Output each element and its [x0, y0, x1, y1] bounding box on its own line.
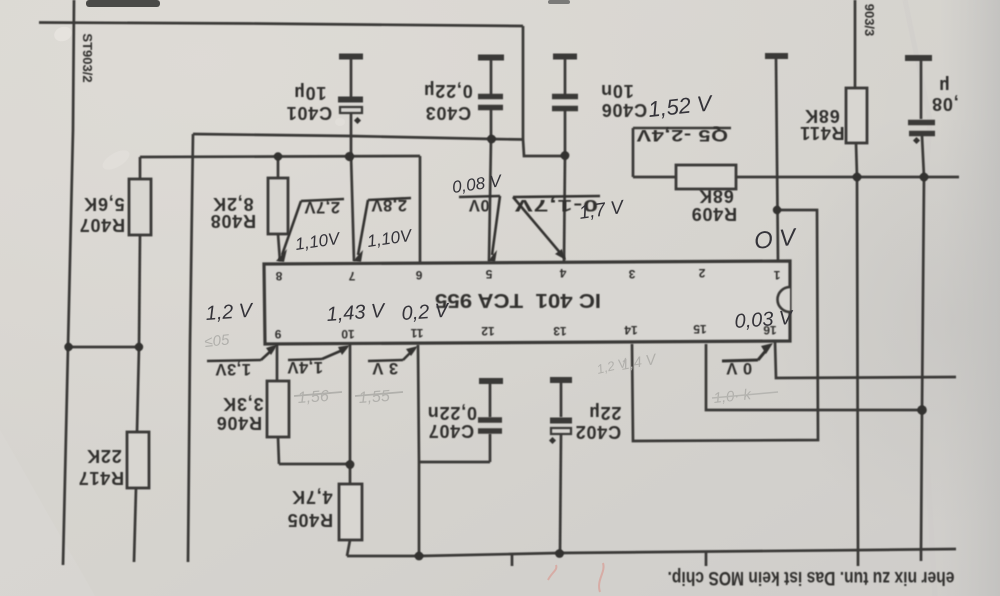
svg-text:8: 8 — [275, 269, 282, 283]
node dot rail3 R411 — [853, 173, 862, 182]
flag pin4 overline — [513, 196, 600, 197]
resistor R407 — [129, 179, 151, 235]
flag pin8 overline — [301, 199, 344, 201]
svg-text:12: 12 — [481, 324, 495, 338]
wire node C401 to pin 7 — [351, 155, 354, 261]
svg-text:1,55: 1,55 — [358, 388, 390, 407]
node dot pin15 wire — [917, 405, 927, 415]
wire R408 bottom to pin 8 — [278, 234, 280, 261]
svg-text:1,56: 1,56 — [297, 388, 329, 407]
flag pin5 arrowhead — [488, 250, 497, 262]
svg-text:‚08: ‚08 — [931, 94, 958, 114]
svg-text:3: 3 — [628, 267, 635, 281]
wire rail2 — [140, 156, 420, 157]
svg-text:5,6K: 5,6K — [83, 194, 124, 214]
svg-text:10µ: 10µ — [294, 83, 327, 103]
svg-text:C402: C402 — [575, 422, 621, 442]
ground bar above right cap — [905, 55, 932, 61]
resistor R405 — [339, 484, 362, 540]
wire stub below bottom rail a — [511, 555, 514, 566]
svg-text:C401: C401 — [286, 103, 332, 123]
svg-text:22K: 22K — [86, 446, 121, 466]
svg-text:0V: 0V — [468, 196, 489, 214]
flag pin8 arrowhead — [276, 249, 287, 262]
node dot R408-rail2 — [274, 152, 282, 160]
wire R406 bottom to H2 — [278, 437, 279, 464]
capacitor C407 — [489, 434, 492, 462]
svg-text:10: 10 — [341, 327, 355, 341]
crease bottom-left — [0, 430, 95, 596]
node dot bottom rail C407 line — [415, 552, 424, 561]
paper tear spot near top-left — [52, 24, 74, 43]
svg-text:≤05: ≤05 — [204, 331, 231, 351]
svg-text:Q5 -2,4V: Q5 -2,4V — [636, 126, 728, 144]
svg-text:0,22n: 0,22n — [427, 403, 477, 423]
ground terminal above pin1 line — [765, 53, 788, 59]
svg-text:IC 401 TCA 955: IC 401 TCA 955 — [435, 289, 601, 311]
wire pin 16 down and right — [775, 341, 956, 378]
flag pin7 arrowhead — [353, 250, 363, 262]
flag pin10 leader — [322, 349, 345, 359]
wire C402 to bottom rail — [560, 434, 561, 553]
crease right — [905, 0, 935, 596]
svg-text:R408: R408 — [210, 211, 256, 231]
wire top rail — [39, 23, 523, 27]
capacitor C401 (electrolytic) — [350, 59, 353, 97]
svg-text:6: 6 — [415, 268, 422, 282]
svg-text:4,7K: 4,7K — [291, 487, 332, 507]
ground bar above C401 — [339, 54, 363, 60]
dark smudge top edge — [86, 0, 160, 7]
resistor R408 — [268, 178, 288, 234]
node dot R405 top — [346, 460, 355, 469]
svg-text:2,7V: 2,7V — [304, 198, 340, 216]
resistor R411 — [846, 88, 867, 143]
svg-text:1,2 V: 1,2 V — [205, 300, 255, 325]
wire pin 9 to R406 — [276, 345, 279, 381]
flag pin9 leader — [261, 349, 273, 360]
resistor R417 — [127, 432, 149, 488]
svg-text:R407: R407 — [79, 215, 125, 235]
node dot C403-rail1 — [487, 135, 496, 144]
flag pin5 overline — [459, 196, 500, 197]
paper speck near C401 — [335, 118, 345, 126]
ground bar above C402 — [550, 377, 572, 383]
svg-text:13: 13 — [553, 324, 567, 338]
node dot rail3 right cap — [920, 173, 929, 182]
flag pin9 arrowhead — [266, 344, 278, 355]
capacitor C406 — [564, 59, 567, 94]
svg-text:9: 9 — [274, 327, 281, 341]
wire R411 top from top edge — [854, 0, 857, 88]
flag pin16 overline — [722, 360, 758, 361]
node dot pin1 branch — [773, 206, 781, 214]
flag pin7 overline — [368, 198, 411, 200]
svg-text:ST903/2: ST903/2 — [80, 33, 95, 82]
svg-text:8,2K: 8,2K — [212, 194, 253, 214]
wire terminal to pin 1 — [776, 59, 778, 261]
svg-text:C403: C403 — [425, 103, 471, 123]
flag pin10 arrowhead — [338, 345, 350, 355]
pink scribble near bottom text — [548, 563, 604, 592]
svg-text:1,43 V: 1,43 V — [326, 300, 387, 326]
flag pin7 leader — [358, 200, 368, 255]
polarity mark C402 — [549, 437, 556, 444]
flag pin11 leader — [403, 350, 413, 360]
svg-text:3,3K: 3,3K — [222, 394, 263, 414]
svg-text:O V: O V — [753, 224, 799, 255]
resistor R406 — [267, 381, 289, 437]
paper tear spot left — [100, 146, 133, 173]
svg-text:11: 11 — [410, 326, 423, 340]
svg-text:eher nix zu tun. Das ist kein: eher nix zu tun. Das ist kein MOS chip. — [668, 567, 955, 589]
resistor R409 — [676, 165, 736, 189]
svg-text:0,2 V: 0,2 V — [401, 300, 451, 325]
flag pin11 arrowhead — [406, 346, 418, 356]
flag pin16 arrowhead — [761, 343, 773, 354]
svg-text:10n: 10n — [600, 81, 633, 101]
svg-text:68K: 68K — [698, 186, 733, 206]
svg-text:1: 1 — [773, 268, 780, 282]
wire H1 horizontal — [68, 346, 139, 349]
capacitor C403 — [490, 60, 493, 94]
wire H2 horizontal — [279, 463, 350, 466]
IC notch — [777, 287, 790, 312]
node dot C406 — [561, 151, 570, 160]
wire pin 11 down — [418, 345, 419, 556]
wire bottom rail — [347, 549, 956, 556]
svg-text:2: 2 — [698, 266, 705, 280]
svg-text:15: 15 — [693, 322, 707, 336]
svg-text:2,8V: 2,8V — [371, 196, 407, 214]
wire left border vertical — [63, 0, 74, 565]
flag pin4 leader — [513, 197, 562, 255]
svg-text:0,22µ: 0,22µ — [423, 81, 472, 101]
svg-text:903/3: 903/3 — [862, 4, 877, 37]
svg-text:1,4V: 1,4V — [287, 358, 323, 376]
flag pin16 leader — [758, 348, 768, 360]
wire branch node to pin14 loop — [632, 210, 818, 441]
wire vertical drop from top rail to node B — [523, 26, 565, 156]
wire pin 15 to node right — [706, 344, 922, 410]
svg-text:R405: R405 — [287, 510, 333, 530]
svg-text:68K: 68K — [804, 106, 839, 126]
paper speck near 1,43V — [311, 311, 325, 321]
polarity mark C401 — [354, 117, 361, 124]
wire R417 bottom — [134, 488, 136, 562]
svg-text:C407: C407 — [428, 421, 474, 441]
svg-text:0,03 V: 0,03 V — [734, 307, 795, 333]
wire node C403 to pin 5 — [489, 139, 491, 261]
IC U401 body — [264, 261, 790, 344]
wire rail1 — [193, 134, 524, 140]
polarity mark right cap — [913, 137, 920, 144]
flag pin11 overline — [368, 360, 403, 361]
wire R407 bottom to node H1 — [139, 235, 140, 347]
node dot C401-rail2 — [345, 152, 354, 161]
svg-text:0 V: 0 V — [726, 359, 752, 377]
wire pin 10 down through node to R405 — [349, 345, 352, 484]
svg-text:µ: µ — [938, 76, 949, 96]
wire node C406 to pin 4 — [564, 155, 565, 261]
node dot right H1 — [135, 343, 143, 351]
ground bar above C403 — [478, 55, 504, 61]
svg-text:5: 5 — [485, 267, 492, 281]
ground bar above C406 — [553, 54, 577, 60]
svg-text:R409: R409 — [691, 204, 737, 224]
wire C407 stub — [419, 461, 490, 464]
wire vertical from rail1 corner down left side — [188, 134, 193, 562]
svg-text:1,3V: 1,3V — [215, 360, 251, 378]
flag pin8 leader — [282, 201, 301, 255]
flag pin9 overline — [207, 360, 261, 361]
wire node H1 to R417 — [137, 347, 139, 432]
wire stub below bottom rail b — [705, 551, 708, 566]
svg-text:R417: R417 — [78, 468, 124, 488]
wire R405 bottom to bottom rail — [347, 540, 350, 556]
svg-text:C406: C406 — [601, 100, 647, 120]
svg-text:R406: R406 — [216, 413, 262, 433]
capacitor C right (,08µ electrolytic) — [920, 61, 923, 119]
svg-text:14: 14 — [624, 323, 638, 337]
ground bar above C407 — [479, 378, 503, 384]
node dot left H1 — [64, 343, 72, 351]
svg-text:3 V: 3 V — [372, 359, 398, 377]
flag Q5 bracket — [633, 127, 731, 130]
wire right cap down full height — [921, 136, 924, 561]
svg-text:7: 7 — [348, 269, 355, 283]
flag pin4 arrowhead — [555, 249, 566, 260]
flag pin5 leader — [492, 196, 500, 255]
svg-text:4: 4 — [559, 266, 566, 280]
wire R411 bottom through rail3 to bottom rail — [856, 143, 858, 566]
svg-text:R411: R411 — [799, 123, 844, 143]
capacitor C402 (electrolytic) — [560, 383, 563, 417]
wire rail2 into R407 — [139, 157, 142, 179]
wire R408 top to rail2 — [277, 157, 280, 179]
wire rail2 to pin 6 — [419, 156, 422, 262]
node dot bottom rail C402 line — [555, 549, 564, 558]
svg-text:22µ: 22µ — [589, 403, 622, 423]
wire rail3 — [633, 176, 959, 179]
flag pin10 overline — [288, 359, 322, 360]
